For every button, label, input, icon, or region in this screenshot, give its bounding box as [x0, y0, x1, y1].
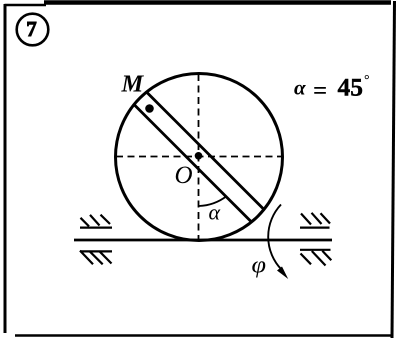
svg-text:α: α	[294, 76, 306, 100]
svg-text:φ: φ	[252, 253, 267, 279]
svg-text:°: °	[364, 73, 370, 88]
svg-text:=: =	[313, 78, 327, 105]
svg-text:M: M	[121, 71, 145, 98]
svg-text:45: 45	[338, 73, 364, 102]
svg-text:O: O	[175, 162, 193, 189]
svg-text:α: α	[209, 200, 221, 225]
svg-text:7: 7	[26, 17, 37, 41]
